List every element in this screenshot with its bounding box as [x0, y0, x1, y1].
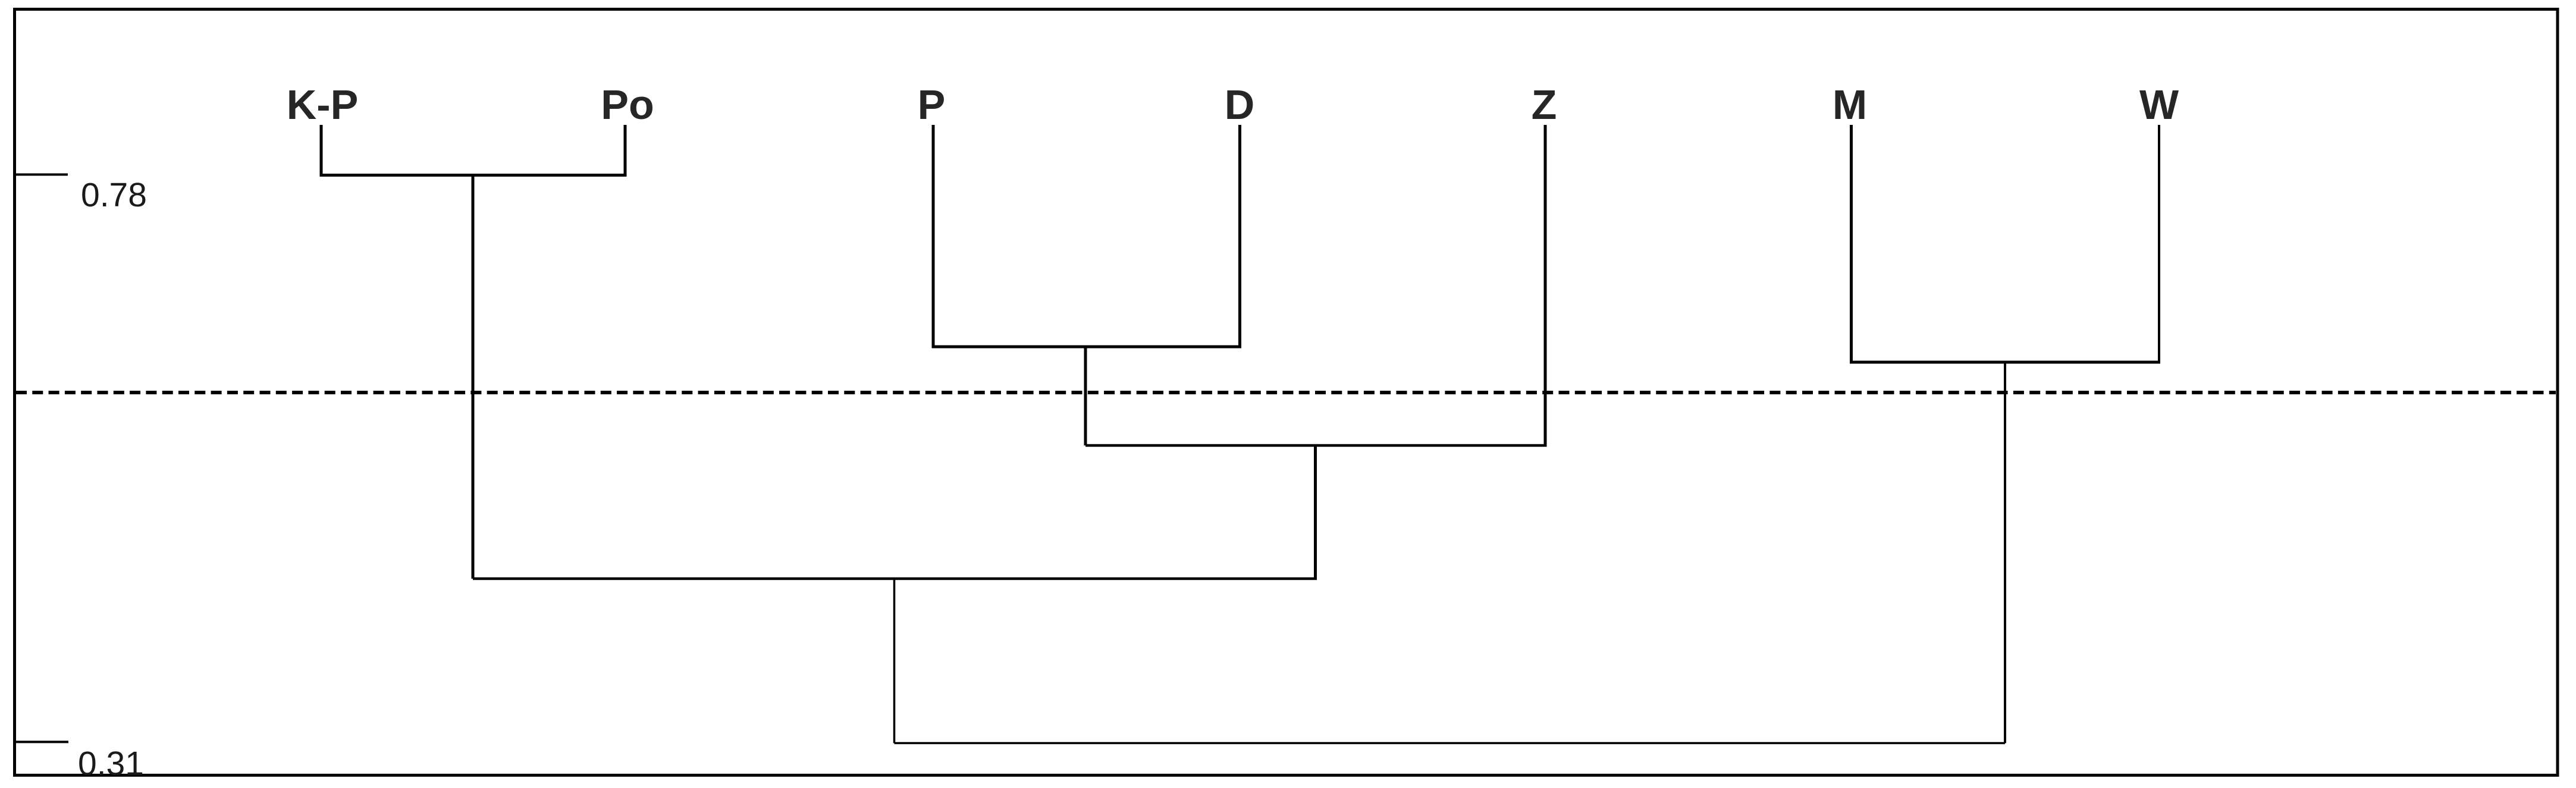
- leaf stub M: [1850, 125, 1853, 362]
- svg-text:K-P: K-P: [287, 81, 359, 128]
- leaf stub Po: [624, 125, 627, 175]
- axis tick 0.78: [16, 174, 68, 176]
- descender from (P,D) node: [1084, 347, 1087, 445]
- axis tick 0.31: [16, 741, 68, 743]
- threshold dashed line: [16, 391, 2556, 394]
- svg-text:0.31: 0.31: [78, 745, 144, 783]
- join bar K-P + Po at 0.78: [320, 174, 627, 177]
- descender from (K-P,Po) node: [472, 175, 475, 579]
- leaf stub D: [1238, 125, 1241, 347]
- leaf stub W: [2158, 125, 2160, 362]
- svg-text:0.78: 0.78: [81, 176, 147, 214]
- descender from five-leaf node: [893, 579, 896, 743]
- descender from ((P,D),Z) node: [1314, 445, 1317, 579]
- descender from (M,W) node: [2004, 362, 2006, 743]
- leaf stub K-P: [320, 125, 323, 175]
- svg-text:M: M: [1833, 81, 1867, 128]
- svg-text:Po: Po: [601, 81, 654, 128]
- svg-text:Z: Z: [1532, 81, 1557, 128]
- svg-text:D: D: [1225, 81, 1255, 128]
- svg-text:P: P: [918, 81, 946, 128]
- root join bar at 0.31: [895, 742, 2006, 745]
- join bar (K-P,Po) + ((P,D),Z): [473, 577, 1317, 580]
- leaf stub P: [932, 125, 935, 347]
- svg-text:W: W: [2139, 81, 2179, 128]
- join bar (P,D) + Z: [1085, 444, 1547, 447]
- leaf stub Z: [1544, 125, 1547, 445]
- join bar P + D: [932, 346, 1242, 349]
- join bar M + W: [1850, 361, 2160, 364]
